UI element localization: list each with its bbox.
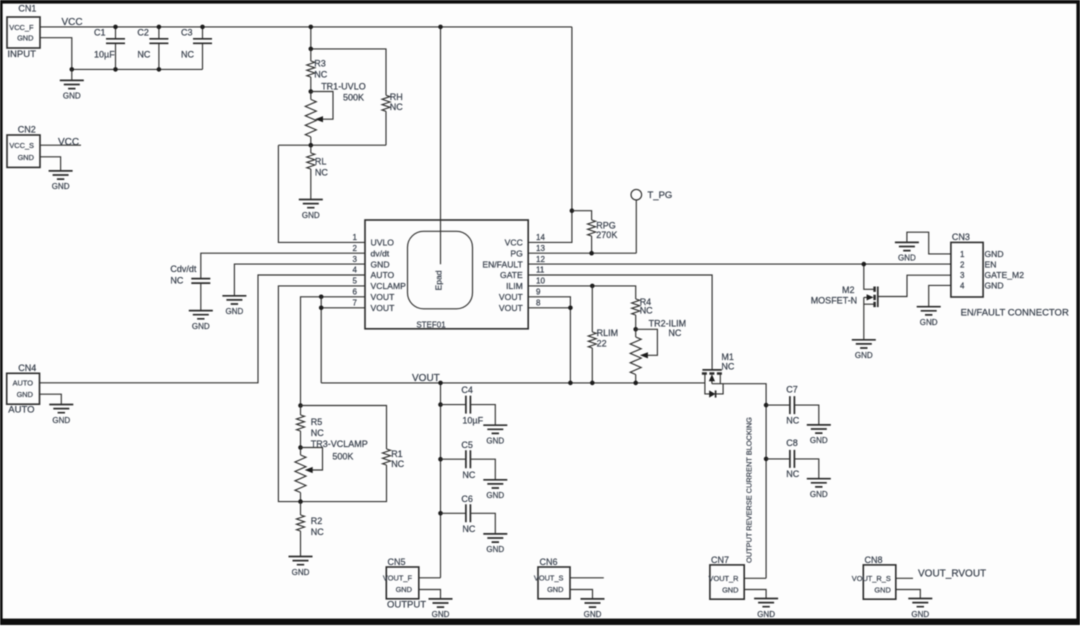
connector CN5 <box>383 557 426 610</box>
svg-text:GND: GND <box>52 182 70 191</box>
capacitor C2 <box>137 25 168 72</box>
svg-text:5: 5 <box>353 277 358 286</box>
capacitor C6 <box>438 494 495 534</box>
ground C4 <box>483 425 507 445</box>
wire M2 gate <box>878 275 951 296</box>
svg-text:Epad: Epad <box>434 270 444 290</box>
svg-text:RH: RH <box>390 92 403 102</box>
svg-text:10µF: 10µF <box>462 416 483 426</box>
svg-text:GND: GND <box>17 34 33 43</box>
svg-text:NC: NC <box>721 361 734 371</box>
ground CN6 <box>581 599 605 619</box>
svg-text:GND: GND <box>63 92 81 101</box>
svg-text:GND: GND <box>18 153 34 162</box>
svg-text:CN8: CN8 <box>865 555 883 565</box>
svg-text:VOUT_S: VOUT_S <box>534 573 564 582</box>
svg-text:GATE_M2: GATE_M2 <box>985 270 1025 280</box>
svg-text:C7: C7 <box>786 384 798 394</box>
svg-text:VOUT: VOUT <box>499 292 524 302</box>
ground CN7 <box>754 599 778 619</box>
wire CN1 GND <box>40 38 72 70</box>
svg-text:3: 3 <box>353 255 358 264</box>
svg-text:VCC_F: VCC_F <box>9 23 34 32</box>
capacitor C3 <box>181 25 212 70</box>
note OUTPUT REVERSE CURRENT BLOCKING <box>745 417 754 563</box>
wire VCC to R3 <box>309 25 314 49</box>
svg-text:GND: GND <box>302 211 320 220</box>
svg-text:RL: RL <box>315 157 327 167</box>
svg-text:VOUT_R_S: VOUT_R_S <box>852 574 891 583</box>
ground CN3 pin4 <box>917 307 941 327</box>
wire CN5 GND <box>419 590 441 599</box>
svg-text:VOUT: VOUT <box>499 303 524 313</box>
svg-text:C6: C6 <box>461 494 473 504</box>
svg-text:CN2: CN2 <box>18 125 36 135</box>
svg-text:R5: R5 <box>311 417 323 427</box>
svg-text:NC: NC <box>391 459 404 469</box>
svg-text:M2: M2 <box>842 285 855 295</box>
svg-text:GND: GND <box>855 351 873 360</box>
wire pin3 GND <box>234 264 365 296</box>
wire VCC rail <box>40 26 572 28</box>
resistor RLIM <box>588 284 618 383</box>
svg-text:1: 1 <box>353 233 358 242</box>
ground C6 <box>483 534 507 554</box>
svg-text:OUTPUT REVERSE CURRENT BLOCKIN: OUTPUT REVERSE CURRENT BLOCKING <box>745 417 754 563</box>
svg-text:NC: NC <box>786 415 799 425</box>
ground CN2 <box>49 171 73 191</box>
resistor RH <box>382 92 403 145</box>
svg-text:AUTO: AUTO <box>8 404 34 415</box>
svg-text:T_PG: T_PG <box>648 190 673 201</box>
capacitor Cdv/dt <box>170 253 365 310</box>
svg-text:ILIM: ILIM <box>506 281 523 291</box>
svg-text:NC: NC <box>137 50 150 60</box>
svg-text:EN: EN <box>985 260 997 270</box>
svg-text:14: 14 <box>536 233 545 242</box>
ground R2 <box>289 557 313 577</box>
connector CN6 <box>534 557 570 599</box>
svg-text:9: 9 <box>536 288 541 297</box>
svg-text:C3: C3 <box>181 28 193 38</box>
svg-text:CN6: CN6 <box>540 557 558 567</box>
svg-text:PG: PG <box>510 248 523 258</box>
svg-text:CN3: CN3 <box>952 232 970 242</box>
svg-text:GND: GND <box>985 280 1004 290</box>
svg-text:CN1: CN1 <box>18 4 36 14</box>
svg-text:GND: GND <box>486 545 504 554</box>
wire pin14 VCC riser <box>528 27 572 243</box>
svg-text:OUTPUT: OUTPUT <box>387 599 426 610</box>
wire CN5 VOUT_F <box>419 577 441 579</box>
svg-text:GND: GND <box>547 585 563 594</box>
ground pin3 <box>222 296 246 316</box>
svg-text:2: 2 <box>960 261 965 270</box>
ground M2 <box>852 340 876 360</box>
svg-text:GND: GND <box>874 585 890 594</box>
wire VCC to Epad <box>438 25 443 265</box>
capacitor C5 <box>438 440 495 480</box>
svg-text:GND: GND <box>292 568 310 577</box>
capacitor C4 <box>438 385 495 425</box>
svg-text:GND: GND <box>911 610 929 619</box>
wire CN3 pin1 GND <box>907 232 951 254</box>
wire CN6 GND <box>570 590 593 599</box>
svg-text:CN7: CN7 <box>711 555 729 565</box>
svg-text:GND: GND <box>898 254 916 263</box>
svg-text:C1: C1 <box>94 28 106 38</box>
svg-text:INPUT: INPUT <box>7 49 36 60</box>
transistor M1 <box>702 352 735 384</box>
svg-text:VCLAMP: VCLAMP <box>371 281 407 291</box>
svg-text:M1: M1 <box>721 352 734 362</box>
wire CN2 GND <box>40 157 61 171</box>
wire pin7 VOUT riser <box>319 297 365 383</box>
svg-text:VOUT: VOUT <box>412 373 440 384</box>
ground C5 <box>483 480 507 500</box>
wire M2 drain <box>862 262 874 289</box>
svg-text:VCC: VCC <box>505 238 523 248</box>
svg-text:C4: C4 <box>461 385 473 395</box>
svg-text:12: 12 <box>536 255 545 264</box>
svg-text:GND: GND <box>584 610 602 619</box>
svg-text:MOSFET-N: MOSFET-N <box>811 296 858 306</box>
wire VOUT rail <box>321 382 705 384</box>
connector CN8 <box>852 555 896 599</box>
svg-text:GND: GND <box>52 416 70 425</box>
svg-text:VOUT: VOUT <box>371 292 396 302</box>
svg-text:GND: GND <box>371 259 390 269</box>
svg-text:TR1-UVLO: TR1-UVLO <box>321 81 366 91</box>
svg-text:NC: NC <box>314 69 327 79</box>
svg-text:11: 11 <box>536 266 545 275</box>
capacitor C8 <box>764 438 819 479</box>
svg-text:RPG: RPG <box>596 220 616 230</box>
svg-text:10µF: 10µF <box>94 50 115 60</box>
svg-text:RLIM: RLIM <box>597 328 619 338</box>
svg-text:500K: 500K <box>332 451 353 461</box>
resistor R2 <box>297 499 325 556</box>
svg-text:NC: NC <box>390 102 403 112</box>
svg-text:GND: GND <box>757 610 775 619</box>
ground C8 <box>807 479 831 499</box>
wire pin9 pin8 VOUT <box>528 297 573 385</box>
svg-text:NC: NC <box>462 524 475 534</box>
resistor R4 <box>632 297 653 329</box>
svg-text:R1: R1 <box>391 449 403 459</box>
wire M2 source to ground <box>863 297 865 339</box>
svg-text:VOUT_R: VOUT_R <box>709 574 739 583</box>
svg-text:4: 4 <box>960 281 965 290</box>
svg-text:Cdv/dt: Cdv/dt <box>170 264 197 274</box>
resistor RPG <box>570 208 618 253</box>
ground CN3 pin1 <box>895 242 919 262</box>
ground RL <box>299 200 323 220</box>
svg-text:VCC: VCC <box>58 137 79 148</box>
resistor R1 <box>301 406 405 502</box>
wire pin13 PG <box>528 251 636 256</box>
svg-text:CN5: CN5 <box>388 557 406 567</box>
svg-text:GND: GND <box>486 491 504 500</box>
svg-text:10: 10 <box>536 277 545 286</box>
svg-text:VCC_S: VCC_S <box>9 141 34 150</box>
svg-text:4: 4 <box>353 266 358 275</box>
svg-text:1: 1 <box>960 250 965 259</box>
svg-text:GND: GND <box>486 437 504 446</box>
svg-text:NC: NC <box>181 50 194 60</box>
wire RH top branch <box>309 47 387 96</box>
svg-text:NC: NC <box>668 328 681 338</box>
svg-text:NC: NC <box>640 306 653 316</box>
svg-text:3: 3 <box>960 271 965 280</box>
svg-text:CN4: CN4 <box>18 363 36 373</box>
svg-text:22: 22 <box>597 339 607 349</box>
net label VOUT_RVOUT <box>918 568 986 579</box>
wire pin10 ILIM <box>528 286 636 299</box>
wire CN8 VOUT_R_S stub <box>896 577 913 579</box>
wire VOUT riser to CN5 <box>438 381 443 578</box>
wire CN7 GND <box>744 590 766 599</box>
svg-text:C8: C8 <box>786 438 798 448</box>
connector CN4 <box>7 363 40 415</box>
svg-text:C5: C5 <box>461 440 473 450</box>
svg-text:VCC: VCC <box>62 17 83 28</box>
svg-text:2: 2 <box>353 244 358 253</box>
wire CN6 VOUT_S stub <box>570 577 604 579</box>
svg-text:GND: GND <box>810 490 828 499</box>
ground CN5 <box>429 599 453 619</box>
svg-text:VOUT_RVOUT: VOUT_RVOUT <box>918 568 986 579</box>
capacitor C1 <box>94 25 125 72</box>
wire CN7 VOUT_R <box>744 577 766 579</box>
wire CN8 GND <box>896 590 921 599</box>
svg-text:7: 7 <box>353 299 358 308</box>
svg-text:GATE: GATE <box>500 270 523 280</box>
wire pin12 EN/FAULT <box>528 263 951 265</box>
svg-text:GND: GND <box>432 610 450 619</box>
svg-text:GND: GND <box>396 585 412 594</box>
svg-text:13: 13 <box>536 244 545 253</box>
svg-text:NC: NC <box>462 470 475 480</box>
wire TR1 bottom node <box>278 143 386 148</box>
wire CN3 pin4 GND <box>929 285 951 306</box>
svg-text:GND: GND <box>920 318 938 327</box>
test point T_PG <box>631 189 672 253</box>
note EN/FAULT CONNECTOR <box>961 308 1069 319</box>
svg-text:GND: GND <box>810 436 828 445</box>
resistor RL <box>307 145 329 199</box>
wire ground rail <box>70 67 203 72</box>
svg-text:NC: NC <box>786 469 799 479</box>
svg-text:NC: NC <box>170 275 183 285</box>
ground C7 <box>807 425 831 445</box>
svg-text:NC: NC <box>311 428 324 438</box>
wire AUTO net <box>40 275 366 383</box>
svg-text:6: 6 <box>353 288 358 297</box>
svg-text:C2: C2 <box>137 28 149 38</box>
svg-text:EN/FAULT CONNECTOR: EN/FAULT CONNECTOR <box>961 308 1069 319</box>
wire pin11 GATE <box>528 275 712 369</box>
trimmer TR2-ILIM <box>630 319 686 383</box>
svg-text:R3: R3 <box>314 58 326 68</box>
wire pin6 <box>301 295 366 406</box>
ground Cdv/dt <box>189 311 213 331</box>
resistor R3 <box>307 49 328 92</box>
ground CN4 <box>49 405 73 425</box>
connector CN1 <box>7 4 40 61</box>
node RLIM rail junction <box>590 381 638 386</box>
svg-text:TR3-VCLAMP: TR3-VCLAMP <box>311 439 368 449</box>
svg-text:AUTO: AUTO <box>371 270 395 280</box>
svg-text:AUTO: AUTO <box>13 379 34 388</box>
net label VOUT <box>412 373 440 384</box>
wire VCLAMP riser <box>278 286 365 502</box>
wire CN2 VCC stub <box>40 144 81 146</box>
svg-text:GND: GND <box>722 585 738 594</box>
svg-text:GND: GND <box>226 307 244 316</box>
svg-text:GND: GND <box>985 249 1004 259</box>
net label VCC <box>62 17 83 28</box>
svg-text:EN/FAULT: EN/FAULT <box>482 259 523 269</box>
connector CN7 <box>709 555 745 599</box>
svg-text:VOUT_F: VOUT_F <box>383 573 413 582</box>
svg-text:500K: 500K <box>343 93 364 103</box>
capacitor C7 <box>764 384 819 425</box>
resistor R5 <box>297 403 325 447</box>
body diode M1 <box>705 383 723 398</box>
ground CN1 <box>60 69 84 100</box>
svg-text:dv/dt: dv/dt <box>371 248 390 258</box>
op-amp U1 STEF01 <box>353 220 546 329</box>
connector CN2 <box>7 125 40 168</box>
connector CN3 <box>951 232 1024 297</box>
wire UVLO to pin1 <box>278 145 365 242</box>
svg-text:VOUT: VOUT <box>371 303 396 313</box>
wire M1 source rail <box>712 384 766 579</box>
ground CN8 <box>908 599 932 619</box>
svg-text:GND: GND <box>192 322 210 331</box>
svg-text:NC: NC <box>311 527 324 537</box>
svg-text:UVLO: UVLO <box>371 238 395 248</box>
svg-text:8: 8 <box>536 299 541 308</box>
svg-text:GND: GND <box>17 390 33 399</box>
svg-text:270K: 270K <box>596 230 617 240</box>
transistor M2 <box>811 285 878 307</box>
svg-text:R2: R2 <box>311 516 323 526</box>
trimmer TR3-VCLAMP <box>295 439 368 502</box>
net label VCC (CN2) <box>58 137 79 148</box>
svg-text:NC: NC <box>315 168 328 178</box>
svg-text:STEF01: STEF01 <box>416 320 446 329</box>
trimmer TR1-UVLO <box>305 81 365 145</box>
wire CN4 GND <box>40 394 62 404</box>
